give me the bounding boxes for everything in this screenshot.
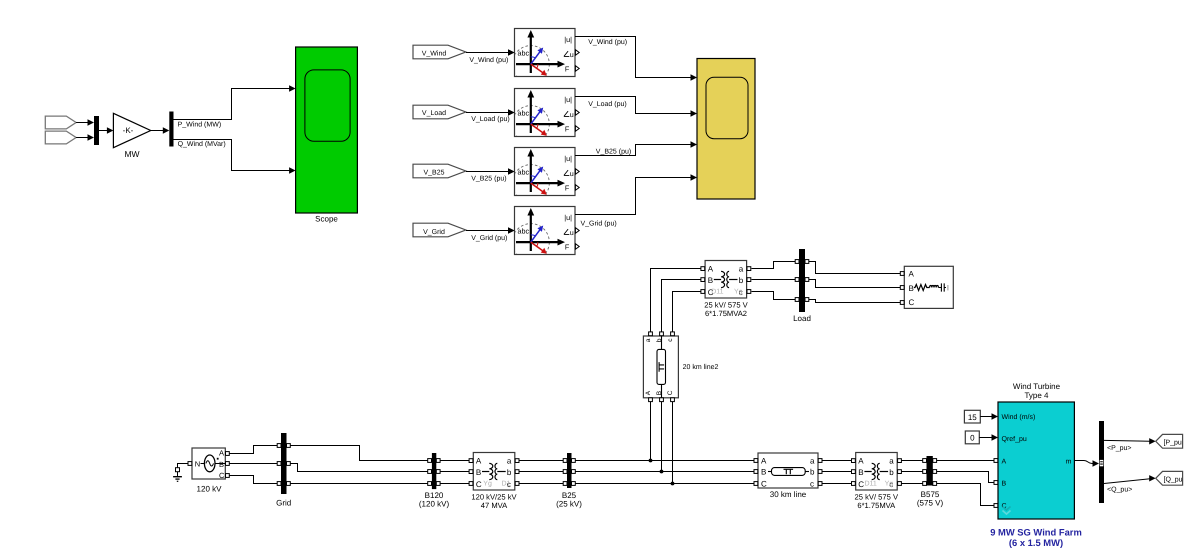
- svg-text:A: A: [219, 449, 224, 458]
- svg-text:C: C: [909, 298, 915, 307]
- svg-text:P_Wind (MW): P_Wind (MW): [178, 121, 222, 129]
- svg-text:(575 V): (575 V): [917, 498, 944, 507]
- svg-text:V_B25: V_B25: [423, 169, 444, 176]
- svg-text:B: B: [219, 460, 224, 469]
- svg-text:47 MVA: 47 MVA: [481, 501, 508, 510]
- svg-text:V_Grid: V_Grid: [423, 228, 445, 236]
- svg-text:Type 4: Type 4: [1024, 391, 1049, 400]
- svg-text:B: B: [1002, 481, 1007, 488]
- svg-text:C: C: [219, 471, 225, 480]
- svg-text:Q_Wind (MVar): Q_Wind (MVar): [178, 140, 226, 148]
- svg-text:A: A: [1002, 458, 1007, 465]
- svg-text:D11: D11: [711, 289, 723, 296]
- svg-text:a: a: [645, 338, 652, 342]
- svg-text:V_Load (pu): V_Load (pu): [471, 115, 510, 123]
- svg-text:V_Wind (pu): V_Wind (pu): [588, 38, 627, 46]
- svg-text:9 MW SG Wind Farm: 9 MW SG Wind Farm: [990, 527, 1082, 538]
- svg-text:V_B25 (pu): V_B25 (pu): [471, 175, 506, 183]
- svg-text:30 km line: 30 km line: [770, 490, 807, 499]
- svg-text:Scope: Scope: [315, 215, 338, 224]
- svg-text:Load: Load: [793, 314, 811, 323]
- svg-text:V_Grid (pu): V_Grid (pu): [471, 234, 507, 242]
- svg-text:A: A: [645, 390, 652, 395]
- svg-text:m: m: [1066, 458, 1072, 465]
- svg-text:MW: MW: [124, 149, 139, 159]
- svg-text:-K-: -K-: [123, 126, 134, 135]
- svg-text:C: C: [667, 390, 674, 395]
- svg-text:Wind (m/s): Wind (m/s): [1002, 413, 1036, 421]
- svg-text:Yg: Yg: [885, 481, 894, 488]
- svg-text:B25: B25: [562, 491, 577, 500]
- svg-text:V_Load: V_Load: [422, 109, 446, 117]
- svg-text:15: 15: [968, 413, 977, 422]
- svg-text:20 km line2: 20 km line2: [683, 363, 719, 371]
- svg-text:Yg: Yg: [734, 289, 743, 296]
- svg-text:A: A: [909, 269, 915, 278]
- svg-text:V_Wind: V_Wind: [422, 50, 447, 58]
- svg-text:c: c: [810, 480, 814, 489]
- svg-text:V_Load (pu): V_Load (pu): [588, 100, 627, 108]
- svg-text:6*1.75MVA: 6*1.75MVA: [857, 501, 896, 510]
- svg-text:0: 0: [970, 434, 975, 443]
- svg-text:b: b: [810, 468, 815, 477]
- svg-text:a: a: [810, 457, 815, 466]
- svg-text:Grid: Grid: [276, 499, 291, 508]
- svg-text:C: C: [761, 480, 767, 489]
- svg-text:B: B: [909, 284, 914, 293]
- svg-text:D1: D1: [502, 481, 511, 488]
- svg-text:<P_pu>: <P_pu>: [1107, 445, 1132, 452]
- svg-text:120 kV: 120 kV: [197, 484, 223, 493]
- svg-text:(120 kV): (120 kV): [419, 500, 450, 509]
- svg-text:V_B25 (pu): V_B25 (pu): [596, 147, 631, 155]
- svg-text:(6 x 1.5 MW): (6 x 1.5 MW): [1009, 537, 1063, 548]
- svg-text:V_Grid (pu): V_Grid (pu): [581, 219, 617, 227]
- svg-text:Qref_pu: Qref_pu: [1002, 435, 1027, 443]
- svg-text:Wind Turbine: Wind Turbine: [1013, 382, 1061, 391]
- svg-text:(25 kV): (25 kV): [556, 500, 582, 509]
- svg-text:V_Wind (pu): V_Wind (pu): [469, 56, 508, 64]
- svg-text:[P_pu: [P_pu: [1164, 439, 1182, 447]
- svg-text:B: B: [761, 468, 766, 477]
- svg-text:<Q_pu>: <Q_pu>: [1107, 486, 1132, 493]
- svg-text:D11: D11: [865, 481, 877, 488]
- svg-text:Yg: Yg: [483, 481, 492, 488]
- svg-text:6*1.75MVA2: 6*1.75MVA2: [705, 309, 747, 318]
- svg-text:N: N: [195, 460, 200, 469]
- svg-text:A: A: [761, 457, 767, 466]
- svg-text:[Q_pu: [Q_pu: [1164, 476, 1183, 484]
